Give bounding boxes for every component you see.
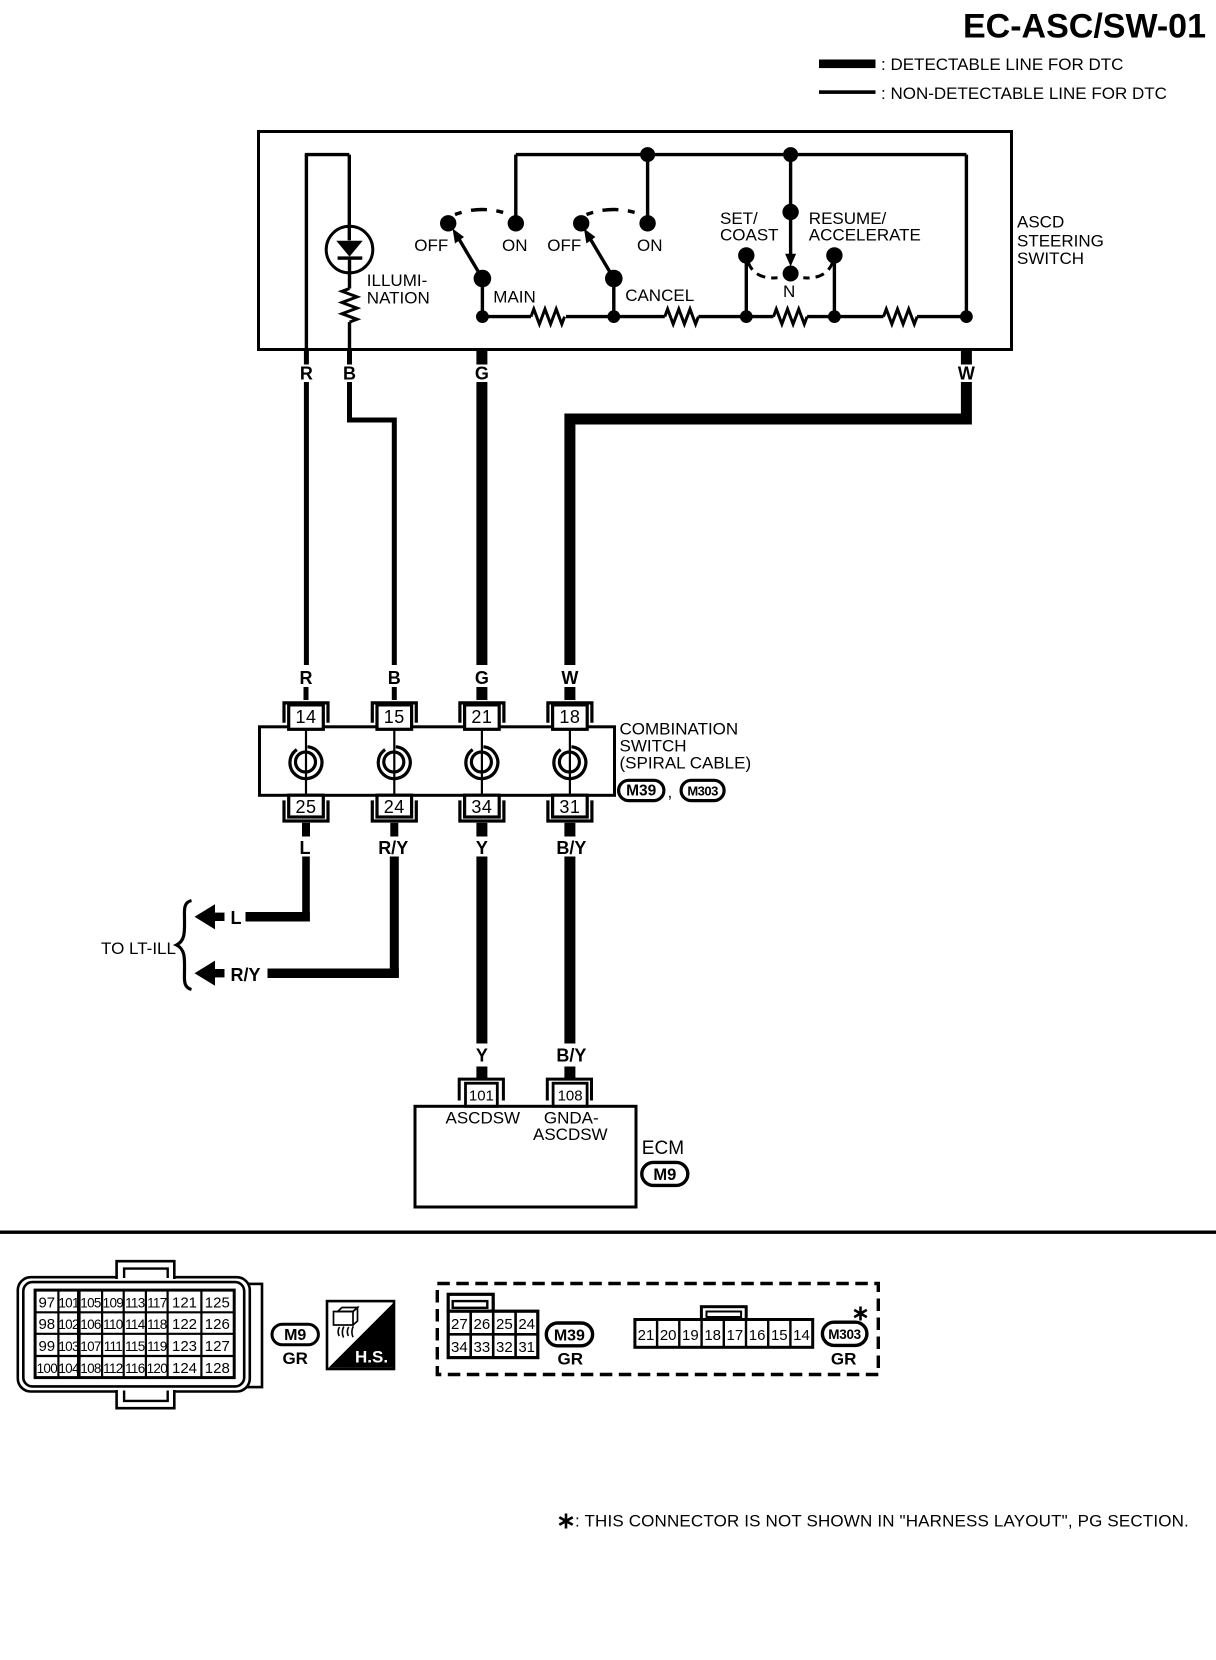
wire R long (304, 382, 309, 665)
svg-text:110: 110 (103, 1317, 123, 1332)
svg-text:STEERING: STEERING (1017, 231, 1104, 250)
svg-text:25: 25 (496, 1316, 513, 1333)
svg-text:B/Y: B/Y (556, 1046, 586, 1066)
wire R inside box (305, 155, 308, 349)
wire Y long (476, 857, 487, 1044)
pin 24 bracket (372, 800, 416, 821)
switch CANCEL OFF contact (573, 215, 589, 231)
svg-text:99: 99 (38, 1338, 55, 1355)
svg-text:111: 111 (104, 1339, 123, 1354)
svg-text:21: 21 (638, 1327, 655, 1344)
arrow L to LT-ILL (195, 904, 216, 929)
switch CANCEL pivot (605, 270, 623, 288)
arrowhead resume down (785, 254, 796, 267)
svg-text:128: 128 (205, 1360, 230, 1377)
pin 14 bracket (284, 703, 328, 723)
svg-text:20: 20 (660, 1327, 677, 1344)
pin 108 bracket (547, 1079, 591, 1100)
wire R stub to pin 14 (304, 687, 309, 700)
wire illumination branch (348, 155, 351, 241)
svg-text:122: 122 (172, 1316, 197, 1333)
svg-text:Y: Y (476, 1046, 488, 1066)
wire L stub below pin 25 (302, 823, 310, 837)
connector M9 oval bottom (272, 1324, 318, 1345)
top bus line (516, 153, 967, 156)
svg-text:104: 104 (58, 1361, 80, 1376)
spiral cable symbol 4 (569, 729, 571, 795)
ECM connector shell bump (246, 1284, 262, 1387)
dashed arc set to N (748, 262, 778, 278)
svg-text:113: 113 (125, 1296, 145, 1311)
pin 101 box (466, 1083, 498, 1106)
node chain G (476, 310, 489, 323)
resistor chain wire segments (482, 315, 531, 318)
switch SET/COAST contact (738, 247, 754, 263)
svg-text:34: 34 (471, 797, 492, 817)
svg-text:101: 101 (469, 1088, 494, 1105)
pin 34 box (465, 795, 500, 817)
svg-text:B: B (343, 364, 356, 384)
star M303 (854, 1307, 867, 1321)
node resume contact (782, 204, 798, 220)
ASCD steering switch box (259, 132, 1012, 350)
connector M39 oval (619, 780, 664, 800)
switch CANCEL blade (590, 238, 614, 279)
svg-text:15: 15 (384, 707, 405, 727)
svg-text:15: 15 (771, 1327, 788, 1344)
svg-text:W: W (958, 364, 975, 384)
svg-text:L: L (231, 908, 242, 928)
svg-text:26: 26 (474, 1316, 491, 1333)
footnote star (559, 1514, 572, 1529)
M303 connector grid (635, 1320, 813, 1348)
svg-text:Y: Y (476, 838, 488, 858)
connector M9 oval (642, 1162, 688, 1185)
wire R stub below box (304, 349, 309, 365)
svg-text:120: 120 (147, 1361, 168, 1376)
resistor illumination (342, 289, 357, 323)
svg-text:SWITCH: SWITCH (1017, 249, 1084, 268)
svg-text:107: 107 (80, 1339, 101, 1354)
switch MAIN blade arrowhead (453, 229, 465, 244)
wire CANCEL ON up (646, 155, 649, 224)
legend detectable line sample (819, 60, 876, 69)
node resume top junction (783, 147, 798, 162)
H.S. logo triangle (329, 1303, 394, 1368)
svg-text:108: 108 (558, 1088, 583, 1105)
brace TO LT-ILL (177, 901, 192, 990)
svg-text:117: 117 (147, 1296, 167, 1311)
svg-text:34: 34 (451, 1339, 468, 1356)
pin 34 bracket (460, 800, 504, 821)
svg-text:GR: GR (831, 1349, 857, 1368)
wire MAIN pivot down (481, 279, 484, 317)
wire W stub below box (961, 349, 972, 365)
connector M303 oval bottom (822, 1322, 867, 1345)
pin 108 box (553, 1083, 587, 1106)
svg-text:,: , (668, 783, 673, 802)
combination switch body (260, 727, 615, 796)
H.S. logo connector icon (338, 1308, 358, 1312)
wire Y stub below pin 34 (476, 823, 487, 837)
svg-text:N: N (783, 282, 795, 301)
wire jog R to illumination (305, 153, 350, 156)
svg-text:G: G (475, 364, 489, 384)
node chain cancel (607, 310, 620, 323)
wire G long (476, 382, 487, 665)
svg-text:: DETECTABLE LINE FOR DTC: : DETECTABLE LINE FOR DTC (881, 55, 1123, 74)
svg-text:114: 114 (125, 1317, 146, 1332)
switch MAIN dashed arc (455, 210, 510, 215)
pin 15 bracket (372, 703, 416, 723)
wire RY horizontal (268, 968, 399, 978)
svg-text:112: 112 (103, 1361, 123, 1376)
pin 25 box (289, 795, 324, 817)
wire to box bottom B (348, 322, 351, 348)
svg-text:18: 18 (704, 1327, 721, 1344)
svg-text:24: 24 (518, 1316, 535, 1333)
svg-text:ASCDSW: ASCDSW (445, 1109, 520, 1128)
wire set/coast down (745, 255, 748, 316)
svg-text:MAIN: MAIN (493, 287, 536, 306)
wire MAIN ON up (514, 155, 517, 224)
node N contact (783, 266, 799, 282)
wire G stub to pin 21 (476, 687, 487, 700)
pin 31 box (553, 795, 588, 817)
ECM connector shell inner (23, 1282, 244, 1386)
svg-text:M9: M9 (284, 1327, 306, 1344)
svg-text:OFF: OFF (547, 236, 581, 255)
svg-text:123: 123 (172, 1338, 197, 1355)
dashed arc resume to N (803, 262, 833, 278)
wire L horizontal (246, 912, 310, 922)
svg-text:M39: M39 (626, 783, 657, 800)
wire RY stub below pin 24 (390, 823, 398, 837)
svg-text:COAST: COAST (720, 226, 779, 245)
spiral cable symbol 2 (393, 729, 395, 795)
svg-text:118: 118 (147, 1317, 167, 1332)
svg-text:32: 32 (496, 1339, 513, 1356)
switch RESUME contact (826, 247, 842, 263)
ECM connector shell outer (18, 1277, 250, 1391)
svg-text:14: 14 (295, 707, 316, 727)
diode cathode bar (338, 256, 363, 259)
svg-text:ON: ON (502, 236, 528, 255)
wire W stub to pin 18 (564, 687, 575, 700)
switch MAIN ON contact (508, 215, 524, 231)
svg-text:H.S.: H.S. (355, 1348, 388, 1367)
svg-text:121: 121 (172, 1295, 197, 1312)
switch MAIN OFF contact (440, 215, 456, 231)
ECM pin grid (35, 1290, 234, 1378)
svg-text:ACCELERATE: ACCELERATE (809, 226, 921, 245)
pin 15 box (377, 705, 412, 729)
svg-text:ASCDSW: ASCDSW (533, 1125, 608, 1144)
svg-text:115: 115 (125, 1339, 145, 1354)
diode triangle (336, 241, 362, 257)
pin 101 bracket (459, 1079, 503, 1100)
pin 18 box (553, 705, 588, 729)
svg-text:17: 17 (727, 1327, 744, 1344)
wire G stub below box (476, 349, 487, 365)
svg-text:103: 103 (58, 1339, 79, 1354)
pin 14 box (289, 705, 324, 729)
svg-text:EC-ASC/SW-01: EC-ASC/SW-01 (963, 8, 1206, 46)
node CANCEL ON top junction (640, 147, 655, 162)
svg-text:109: 109 (103, 1296, 124, 1311)
svg-text:21: 21 (471, 707, 492, 727)
wire B stub to pin 15 (392, 687, 397, 700)
svg-text:M303: M303 (687, 783, 718, 798)
svg-text:97: 97 (38, 1295, 55, 1312)
connector M303 oval (681, 780, 724, 800)
svg-text:33: 33 (474, 1339, 491, 1356)
svg-text:16: 16 (749, 1327, 766, 1344)
wire BY stub to pin 108 (564, 1067, 575, 1079)
switch MAIN pivot (474, 270, 492, 288)
switch CANCEL blade arrowhead (584, 229, 596, 244)
resistor 1 (531, 309, 565, 324)
switch MAIN blade (458, 238, 482, 279)
svg-text:14: 14 (793, 1327, 810, 1344)
wire CANCEL pivot down (612, 279, 615, 317)
svg-text:127: 127 (205, 1338, 230, 1355)
pin 24 box (377, 795, 412, 817)
svg-text:R/Y: R/Y (231, 965, 261, 985)
svg-text:R: R (300, 668, 313, 688)
svg-text:L: L (300, 838, 311, 858)
svg-text:OFF: OFF (414, 236, 448, 255)
wire resume contact down (833, 255, 836, 316)
wire below lamp (348, 260, 351, 289)
svg-text:: NON-DETECTABLE LINE FOR DTC: : NON-DETECTABLE LINE FOR DTC (881, 84, 1167, 103)
wire B long with jog (350, 382, 395, 665)
wire BY stub below pin 31 (564, 823, 575, 837)
svg-text:116: 116 (125, 1361, 145, 1376)
node chain W (960, 310, 973, 323)
pin 21 bracket (460, 703, 504, 723)
M303 connector tab (701, 1307, 746, 1321)
svg-text:M9: M9 (653, 1166, 676, 1184)
svg-text:ILLUMI-: ILLUMI- (367, 271, 427, 290)
resistor 2 (665, 309, 699, 324)
svg-text:CANCEL: CANCEL (625, 286, 694, 305)
svg-text:124: 124 (172, 1360, 197, 1377)
svg-text:: THIS CONNECTOR IS NOT SHOWN: : THIS CONNECTOR IS NOT SHOWN IN "HARNES… (575, 1512, 1189, 1531)
wire RY vertical (390, 857, 399, 978)
svg-text:18: 18 (559, 707, 580, 727)
spiral cable symbol 1 (305, 729, 307, 795)
switch CANCEL ON contact (639, 215, 655, 231)
wire BY long (564, 857, 575, 1044)
svg-text:R/Y: R/Y (378, 838, 408, 858)
svg-text:R: R (300, 364, 313, 384)
legend non-detectable line sample (819, 90, 876, 94)
ECM connector top tab (117, 1261, 175, 1279)
svg-text:119: 119 (147, 1339, 167, 1354)
wire resume down (789, 155, 792, 212)
node chain set (740, 310, 753, 323)
svg-text:ECM: ECM (642, 1138, 684, 1159)
wire W long with jog (570, 382, 967, 665)
svg-text:100: 100 (37, 1361, 58, 1376)
svg-text:25: 25 (295, 797, 316, 817)
svg-text:ASCD: ASCD (1017, 213, 1064, 232)
arrow RY to LT-ILL (195, 961, 216, 986)
H.S. logo square (327, 1301, 394, 1369)
connector M39 oval bottom (546, 1323, 592, 1346)
svg-text:M39: M39 (554, 1328, 585, 1345)
wire resume arrow shaft (789, 212, 792, 255)
separator line (0, 1231, 1216, 1234)
svg-text:27: 27 (451, 1316, 468, 1333)
svg-text:TO LT-ILL: TO LT-ILL (101, 939, 176, 958)
svg-text:106: 106 (80, 1317, 101, 1332)
svg-text:101: 101 (58, 1296, 79, 1311)
ECM box (415, 1106, 636, 1207)
svg-text:31: 31 (518, 1339, 535, 1356)
pin 21 box (465, 705, 500, 729)
pin 31 bracket (548, 800, 592, 821)
svg-text:M303: M303 (828, 1327, 861, 1342)
svg-text:24: 24 (384, 797, 405, 817)
resistor 3 (774, 309, 808, 324)
wire right bus down (965, 155, 968, 317)
node chain resume (828, 310, 841, 323)
svg-text:19: 19 (682, 1327, 699, 1344)
lamp ILLUMINATION circle (326, 226, 373, 273)
svg-text:NATION: NATION (367, 289, 430, 308)
svg-text:GR: GR (282, 1349, 308, 1368)
svg-text:ON: ON (637, 236, 663, 255)
svg-text:B/Y: B/Y (556, 838, 586, 858)
svg-text:108: 108 (80, 1361, 101, 1376)
svg-text:102: 102 (58, 1317, 79, 1332)
pin 18 bracket (548, 703, 592, 723)
wire L vertical (306, 857, 310, 922)
wire Y stub to pin 101 (476, 1067, 487, 1079)
pin 25 bracket (284, 800, 328, 821)
M39 connector grid (448, 1311, 538, 1357)
spiral cable symbol 3 (481, 729, 483, 795)
svg-text:(SPIRAL CABLE): (SPIRAL CABLE) (620, 753, 752, 772)
svg-text:B: B (388, 668, 401, 688)
svg-text:31: 31 (559, 797, 580, 817)
svg-text:105: 105 (80, 1296, 101, 1311)
svg-text:GR: GR (558, 1349, 584, 1368)
dashed detail box (437, 1284, 878, 1375)
switch CANCEL dashed arc (587, 210, 642, 215)
svg-text:125: 125 (205, 1295, 230, 1312)
wire B stub below box (347, 349, 352, 365)
resistor 4 (884, 309, 918, 324)
svg-text:G: G (475, 668, 489, 688)
svg-text:W: W (561, 668, 578, 688)
svg-text:126: 126 (205, 1316, 230, 1333)
svg-text:98: 98 (38, 1316, 55, 1333)
M39 connector tab (448, 1294, 493, 1311)
ECM connector bottom tab (117, 1390, 175, 1408)
